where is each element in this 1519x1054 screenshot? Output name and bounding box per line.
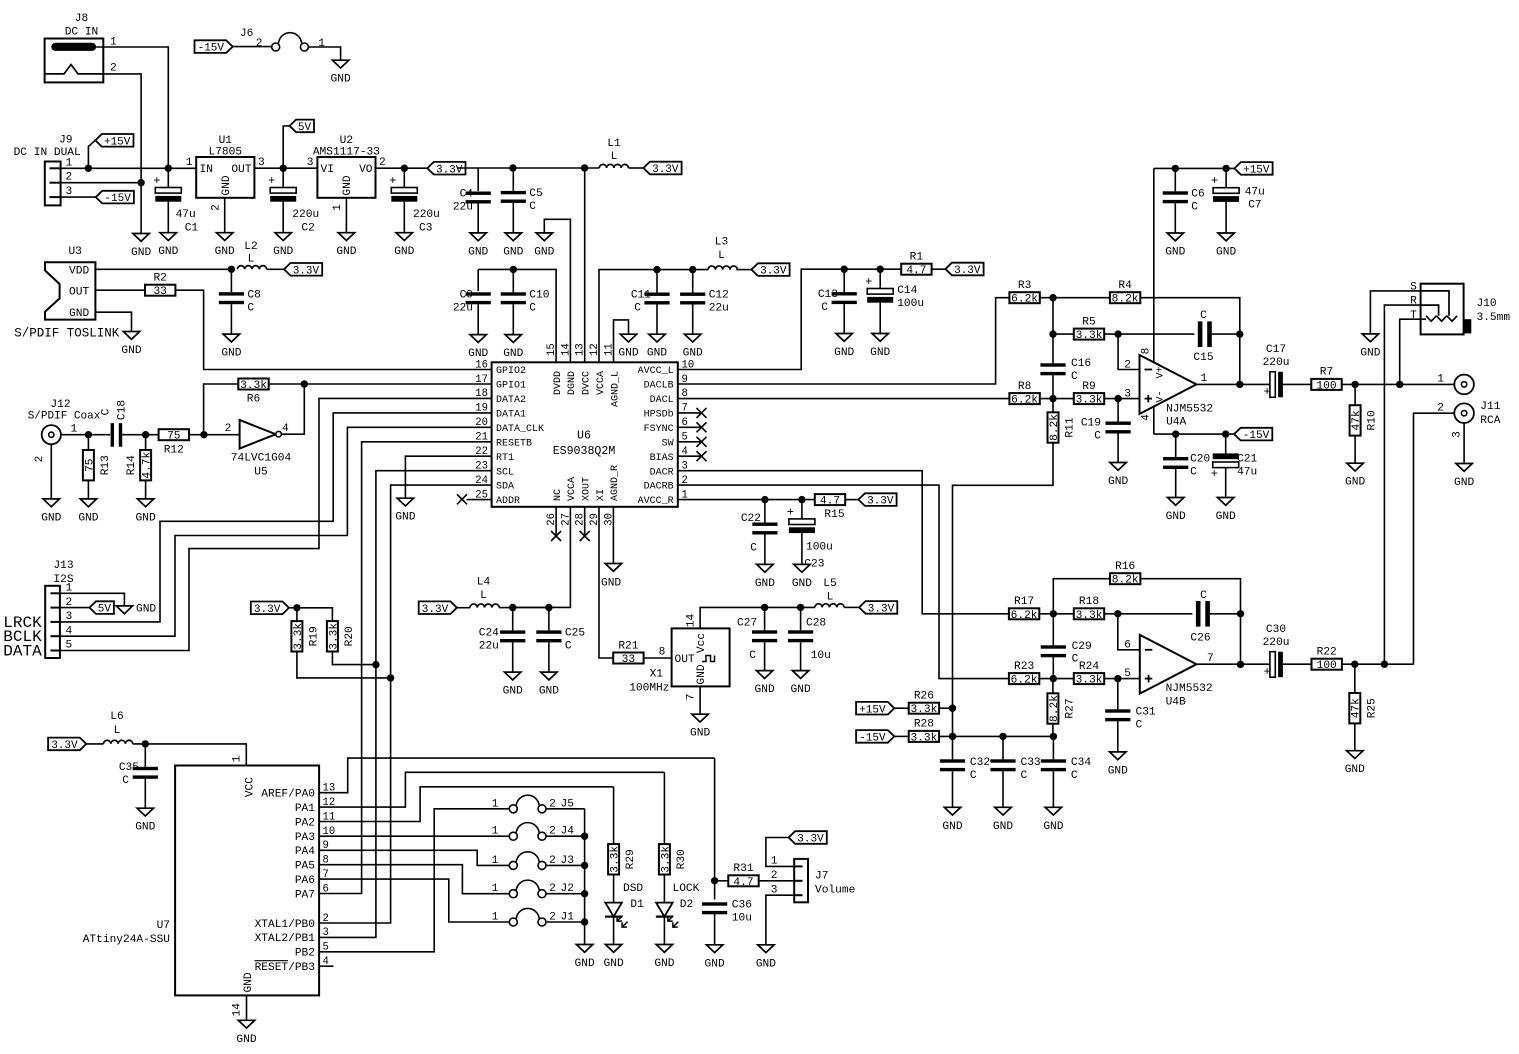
svg-text:J13: J13: [53, 560, 73, 572]
svg-text:GND: GND: [394, 246, 414, 258]
ground for J7: [758, 945, 774, 953]
svg-text:V-: V-: [1156, 390, 1167, 402]
wire U4B output: [1197, 663, 1270, 665]
no-connect X at XOUT pin28: [584, 507, 586, 536]
svg-text:R3: R3: [1018, 280, 1031, 292]
svg-text:GND: GND: [395, 512, 415, 524]
power flag -15V at J6: [195, 40, 233, 53]
svg-text:2: 2: [379, 157, 386, 169]
svg-text:3: 3: [323, 927, 329, 939]
ground for jumpers: [576, 945, 592, 953]
ground for U7: [238, 1020, 254, 1028]
junction R19/SDA: [387, 674, 394, 681]
capacitor C12 22u: [692, 270, 694, 293]
capacitor C36 10u: [702, 902, 727, 905]
svg-text:DVDD: DVDD: [553, 371, 564, 395]
junction R23/C29 node: [1050, 675, 1057, 682]
capacitor C32: [952, 736, 954, 759]
svg-text:2: 2: [225, 423, 232, 435]
resistor R17 6.2k: [1009, 608, 1039, 619]
wire L4 to caps: [499, 607, 513, 609]
svg-text:3.3k: 3.3k: [1076, 675, 1103, 687]
svg-text:220u: 220u: [1263, 637, 1290, 649]
ground for C36: [706, 945, 722, 953]
svg-text:RESET/PB3: RESET/PB3: [255, 962, 315, 974]
svg-text:C25: C25: [565, 628, 585, 640]
capacitor C29: [1041, 645, 1066, 648]
junction R13: [85, 431, 92, 438]
wire R18 to C26: [1104, 613, 1192, 615]
svg-text:8.2k: 8.2k: [1049, 414, 1061, 441]
wire J9 pin1 to regulator input: [61, 167, 197, 169]
wire R9 to pin3: [1104, 398, 1139, 400]
svg-text:11: 11: [604, 343, 616, 356]
capacitor C8: [230, 269, 232, 292]
capacitor C22: [764, 500, 766, 523]
svg-text:C2: C2: [301, 223, 314, 235]
svg-text:L: L: [718, 250, 725, 262]
svg-text:C11: C11: [631, 290, 651, 302]
svg-text:AMS1117-33: AMS1117-33: [313, 147, 380, 159]
junction R8/R11 node: [1049, 395, 1056, 402]
svg-text:75: 75: [167, 431, 180, 443]
junction C26 right: [1237, 610, 1244, 617]
svg-text:+15V: +15V: [104, 136, 131, 148]
wire R21 to X1 OUT: [644, 657, 672, 659]
resistor R14 4.7k: [145, 435, 147, 450]
svg-text:1: 1: [771, 856, 778, 868]
wire L6 input: [86, 743, 103, 745]
resistor R10 47k: [1354, 384, 1356, 405]
ground for J6: [332, 60, 348, 68]
optical receiver U3 S/PDIF TOSLINK: [14, 246, 120, 341]
svg-text:33: 33: [622, 654, 635, 666]
svg-text:14: 14: [560, 343, 572, 356]
capacitor C4 22u: [466, 192, 491, 195]
svg-text:C: C: [1200, 590, 1207, 602]
svg-text:R23: R23: [1014, 661, 1034, 673]
svg-text:1: 1: [492, 826, 499, 838]
wire -15V to R28: [894, 735, 909, 737]
svg-text:PA1: PA1: [295, 803, 315, 815]
wire J13 pin1 to GND: [60, 593, 125, 606]
power flag 5V at J13: [90, 601, 114, 614]
svg-text:C: C: [565, 641, 572, 653]
svg-text:220u: 220u: [1263, 357, 1290, 369]
wire RT1 pin22 to GND: [405, 456, 491, 498]
ground for C34: [1045, 807, 1061, 815]
svg-text:L5: L5: [823, 578, 836, 590]
DAC U6 ES9038Q2M: [475, 343, 694, 525]
svg-text:GND: GND: [131, 247, 151, 259]
junction U4B output: [1237, 661, 1244, 668]
ground for C4: [470, 233, 486, 241]
svg-text:U4B: U4B: [1166, 697, 1186, 709]
wire J10 ring to R output: [1384, 305, 1420, 664]
svg-text:-15V: -15V: [1243, 430, 1270, 442]
wire DACRB pin2 to R23 drop: [678, 485, 1009, 678]
wire SDA pin24 bus: [319, 485, 492, 923]
svg-text:+: +: [1211, 467, 1218, 481]
svg-text:GND: GND: [539, 686, 559, 698]
ground for C19: [1110, 463, 1126, 471]
junction C23: [798, 496, 805, 503]
junction at C3: [401, 165, 408, 172]
svg-text:J9: J9: [59, 135, 72, 147]
svg-text:3.3V: 3.3V: [422, 604, 449, 616]
resistor R11 8.2k: [1052, 399, 1054, 412]
svg-text:C30: C30: [1266, 624, 1286, 636]
svg-text:DGND: DGND: [567, 371, 578, 395]
ground for U3: [123, 332, 139, 340]
junction C13: [841, 266, 848, 273]
capacitor C21 47u: [1225, 434, 1227, 453]
svg-text:U6: U6: [577, 430, 591, 443]
svg-text:J10: J10: [1477, 298, 1497, 310]
svg-text:C8: C8: [247, 289, 260, 301]
svg-text:GND: GND: [136, 604, 156, 616]
connector J7 Volume: [771, 856, 856, 903]
svg-text:1: 1: [332, 204, 344, 211]
svg-text:DATA2: DATA2: [496, 395, 526, 406]
ground for C8: [223, 334, 239, 342]
svg-text:R25: R25: [1366, 698, 1378, 718]
svg-text:3: 3: [771, 884, 778, 896]
svg-text:13: 13: [575, 343, 587, 356]
svg-text:GND: GND: [1043, 821, 1063, 833]
wire inverter output: [281, 384, 304, 434]
inductor L3: [708, 266, 737, 270]
svg-text:C29: C29: [1072, 641, 1092, 653]
jumper J2: [492, 880, 574, 898]
wire J6 pin1 to GND: [308, 47, 340, 60]
svg-text:GND: GND: [78, 512, 98, 524]
power flag 3.3V at L4: [419, 601, 457, 614]
svg-text:J11: J11: [1480, 401, 1500, 413]
svg-text:R26: R26: [914, 691, 934, 703]
svg-text:C5: C5: [529, 188, 542, 200]
svg-text:D1: D1: [630, 899, 644, 911]
ground for D1: [605, 945, 621, 953]
wire U3 VDD to L2 rail: [95, 268, 231, 270]
capacitor C18 series: [111, 423, 114, 447]
power flag 3.3V for pullups: [251, 602, 289, 615]
junction pullup rail: [293, 604, 300, 611]
svg-text:-15V: -15V: [198, 43, 225, 55]
svg-text:6.2k: 6.2k: [1011, 675, 1038, 687]
svg-text:1: 1: [1201, 373, 1208, 385]
power flag -15V at R28: [856, 730, 894, 743]
svg-text:GND: GND: [1108, 765, 1128, 777]
svg-text:XOUT: XOUT: [582, 477, 593, 501]
wire U1 OUT to U2 VI: [254, 167, 317, 169]
svg-text:3.5mm: 3.5mm: [1477, 312, 1511, 324]
junction C19 node: [1114, 395, 1121, 402]
ground for J10 sleeve: [1362, 334, 1378, 342]
svg-text:XTAL1/PB0: XTAL1/PB0: [255, 919, 316, 931]
svg-text:C: C: [247, 302, 254, 314]
resistor R26 3.3k: [909, 703, 939, 714]
svg-text:GND: GND: [791, 684, 811, 696]
svg-text:4.7k: 4.7k: [142, 451, 154, 478]
svg-text:L: L: [248, 254, 255, 266]
svg-text:R27: R27: [1064, 698, 1076, 718]
svg-text:+: +: [1264, 385, 1271, 399]
ground for C23: [794, 564, 810, 572]
svg-text:R19: R19: [308, 626, 320, 646]
svg-text:3.3k: 3.3k: [610, 846, 622, 873]
junction C5: [509, 164, 516, 171]
wire J8 pin2 to GND: [103, 74, 141, 234]
wire R4 to C15 right node: [1140, 298, 1240, 334]
svg-text:L: L: [827, 592, 834, 604]
resistor R3 6.2k: [1009, 292, 1039, 303]
junction J1 rail: [581, 918, 588, 925]
junction pin2 drop: [1114, 330, 1121, 337]
svg-text:NC: NC: [553, 489, 564, 501]
wire R15 to flag: [845, 499, 858, 501]
svg-text:U4A: U4A: [1166, 417, 1186, 429]
svg-text:J6: J6: [240, 28, 253, 40]
power flag 5V: [283, 126, 289, 168]
svg-text:19: 19: [475, 403, 488, 415]
svg-text:1: 1: [71, 424, 78, 436]
svg-text:C: C: [1200, 310, 1207, 322]
svg-text:3.3V: 3.3V: [954, 265, 981, 277]
ground for C33: [995, 807, 1011, 815]
resistor R16 8.2k: [1110, 573, 1140, 584]
power flag -15V at C21: [1234, 428, 1272, 441]
junction pin6 drop: [1114, 610, 1121, 617]
svg-text:C33: C33: [1021, 757, 1041, 769]
wire L3 to flag: [736, 269, 751, 271]
svg-text:3.3V: 3.3V: [867, 496, 894, 508]
wire J11 shield to GND: [1463, 423, 1465, 464]
svg-text:GND: GND: [654, 958, 674, 970]
svg-text:C: C: [750, 543, 757, 555]
svg-text:GND: GND: [618, 348, 638, 360]
svg-text:R10: R10: [1367, 410, 1379, 430]
svg-text:1: 1: [492, 912, 499, 924]
resistor R13 75: [87, 435, 89, 450]
capacitor C34: [1052, 736, 1054, 759]
svg-text:RT1: RT1: [496, 453, 514, 464]
wire DVCC pin13 riser: [584, 168, 586, 362]
wire AGND_L pin11 hook: [614, 320, 629, 362]
svg-text:GND: GND: [273, 246, 293, 258]
wire feedback to output: [1239, 334, 1241, 384]
svg-text:L7805: L7805: [209, 147, 243, 159]
wire volume node down: [714, 758, 716, 899]
svg-text:GND: GND: [221, 175, 233, 195]
op-amp U4A NJM5532: [1124, 348, 1213, 429]
svg-text:GND: GND: [705, 958, 725, 970]
svg-text:47k: 47k: [1351, 410, 1363, 430]
svg-text:R14: R14: [126, 455, 138, 475]
junction R3/R4 node: [1049, 294, 1056, 301]
svg-text:C12: C12: [709, 290, 729, 302]
resistor R30 3.3k: [663, 772, 665, 844]
svg-text:BIAS: BIAS: [650, 453, 674, 464]
capacitor C35: [144, 744, 146, 767]
ground for C24: [505, 672, 521, 680]
inductor L6: [104, 740, 133, 744]
capacitor C16: [1040, 363, 1065, 366]
svg-text:C: C: [1190, 467, 1197, 479]
wire jumper common rail: [584, 809, 586, 945]
svg-text:GND: GND: [135, 822, 155, 834]
wire R31 to J7 pin2: [759, 880, 795, 882]
svg-text:I2S: I2S: [53, 574, 73, 586]
junction C27: [761, 604, 768, 611]
wire R3 to junction: [1040, 297, 1110, 299]
connector J11 RCA: [1437, 374, 1500, 438]
power flag 3.3V at L6: [48, 738, 86, 751]
resistor R1 4.7: [901, 264, 931, 275]
svg-text:PA2: PA2: [295, 817, 315, 829]
svg-text:OUT: OUT: [69, 287, 89, 299]
svg-text:GND: GND: [41, 512, 61, 524]
wire DACL pin8 to R8: [678, 398, 1010, 400]
ground for R13: [80, 499, 96, 507]
svg-text:R17: R17: [1014, 596, 1034, 608]
wire J13 pin5 DATA from U6 DATA2: [60, 398, 492, 650]
junction C6: [1172, 165, 1179, 172]
ground for C3: [396, 233, 412, 241]
capacitor C33: [1002, 736, 1004, 759]
svg-text:GND: GND: [221, 348, 241, 360]
wire R24 to pin5: [1104, 678, 1140, 680]
capacitor C11: [656, 270, 658, 293]
svg-text:GND: GND: [1216, 511, 1236, 523]
svg-text:R24: R24: [1079, 661, 1099, 673]
capacitor C19: [1117, 399, 1119, 422]
ground for C5: [505, 233, 521, 241]
svg-text:L2: L2: [244, 241, 257, 253]
svg-text:J12: J12: [50, 399, 70, 411]
connector J9 DC IN DUAL: [14, 135, 81, 206]
inductor L5: [815, 604, 844, 608]
wire R16 to output riser: [1140, 579, 1240, 614]
svg-text:75: 75: [84, 458, 96, 471]
junction C25: [545, 604, 552, 611]
wire VCCA pin27 to L4 rail: [513, 507, 571, 608]
resistor R20 3.3k: [327, 621, 338, 651]
wire DACLB pin9 to R3: [678, 298, 1010, 384]
svg-text:C: C: [1072, 654, 1079, 666]
wire PA5 to J2: [319, 865, 510, 894]
wire C30 to R22: [1283, 663, 1312, 665]
junction J10 ring riser: [1381, 661, 1388, 668]
svg-text:GND: GND: [755, 578, 775, 590]
svg-text:C1: C1: [185, 223, 199, 235]
inverter U5 74LVC1G04: [225, 420, 292, 479]
svg-text:20: 20: [475, 417, 488, 429]
ground for C13: [836, 334, 852, 342]
junction C24: [509, 604, 516, 611]
resistor R6 3.3k: [238, 379, 268, 390]
svg-text:100u: 100u: [897, 298, 924, 310]
svg-text:10u: 10u: [811, 650, 831, 662]
svg-text:J8: J8: [75, 13, 88, 25]
inductor L1: [599, 164, 628, 168]
ground for C25: [541, 672, 557, 680]
svg-text:C: C: [821, 302, 828, 314]
svg-text:C15: C15: [1193, 352, 1213, 364]
capacitor C7 47u: [1225, 168, 1227, 187]
LED D1 DSD: [613, 875, 615, 903]
capacitor C28 10u: [800, 607, 802, 630]
wire R20 to SCL line: [332, 652, 376, 665]
svg-text:C19: C19: [1081, 418, 1101, 430]
wire 3.3V to J7 pin1: [766, 838, 794, 867]
svg-text:2: 2: [110, 63, 117, 75]
wire J12 shield to GND: [50, 444, 52, 499]
svg-text:R22: R22: [1317, 647, 1337, 659]
svg-text:5: 5: [1124, 668, 1131, 680]
resistor R22 100: [1312, 659, 1342, 670]
ground for J12: [43, 499, 59, 507]
capacitor C14 100u: [879, 269, 881, 288]
ground for X1: [692, 714, 708, 722]
power flag +15V: [88, 140, 95, 168]
ground for C31: [1110, 752, 1126, 760]
svg-text:100u: 100u: [806, 542, 833, 554]
svg-text:220u: 220u: [292, 209, 319, 221]
svg-text:3.3V: 3.3V: [797, 834, 824, 846]
svg-text:R28: R28: [914, 719, 934, 731]
svg-text:R6: R6: [247, 394, 260, 406]
ground for R14: [137, 499, 153, 507]
svg-text:R5: R5: [1082, 316, 1095, 328]
junction C28: [797, 604, 804, 611]
svg-text:L3: L3: [715, 237, 728, 249]
power flag 3.3V after U2: [427, 162, 465, 175]
inductor L4: [470, 604, 499, 608]
svg-text:HPSDb: HPSDb: [644, 409, 674, 421]
svg-text:R12: R12: [164, 444, 184, 456]
svg-text:C: C: [529, 303, 536, 315]
svg-text:+15V: +15V: [1243, 165, 1270, 177]
svg-text:U7: U7: [157, 920, 170, 932]
resistor R21 33: [613, 653, 643, 664]
wire +15V to R26: [894, 707, 909, 709]
resistor R23 6.2k: [1009, 673, 1039, 684]
svg-text:GND: GND: [1166, 511, 1186, 523]
junction C35: [142, 740, 149, 747]
svg-text:C17: C17: [1266, 344, 1286, 356]
wire C18 to R12 node: [122, 434, 159, 436]
wire PA6 to J1: [319, 879, 510, 922]
ground for U2: [338, 233, 354, 241]
svg-text:+: +: [865, 275, 872, 289]
junction J2 rail: [581, 890, 588, 897]
wire U7 RESET/PB3 stub: [319, 965, 333, 967]
svg-text:GND: GND: [1360, 347, 1380, 359]
svg-text:47u: 47u: [1237, 467, 1257, 479]
svg-text:S/PDIF TOSLINK: S/PDIF TOSLINK: [14, 327, 120, 341]
svg-text:GND: GND: [683, 348, 703, 360]
svg-text:R20: R20: [344, 626, 356, 646]
wire J12 pin1: [61, 434, 110, 436]
svg-text:2: 2: [771, 870, 778, 882]
wire L6 to U7 VCC: [133, 744, 247, 766]
svg-text:GND: GND: [575, 958, 595, 970]
svg-text:5V: 5V: [98, 604, 112, 616]
wire U2 pin1 to GND: [345, 198, 347, 233]
svg-text:R8: R8: [1018, 381, 1031, 393]
svg-text:10: 10: [682, 359, 695, 371]
